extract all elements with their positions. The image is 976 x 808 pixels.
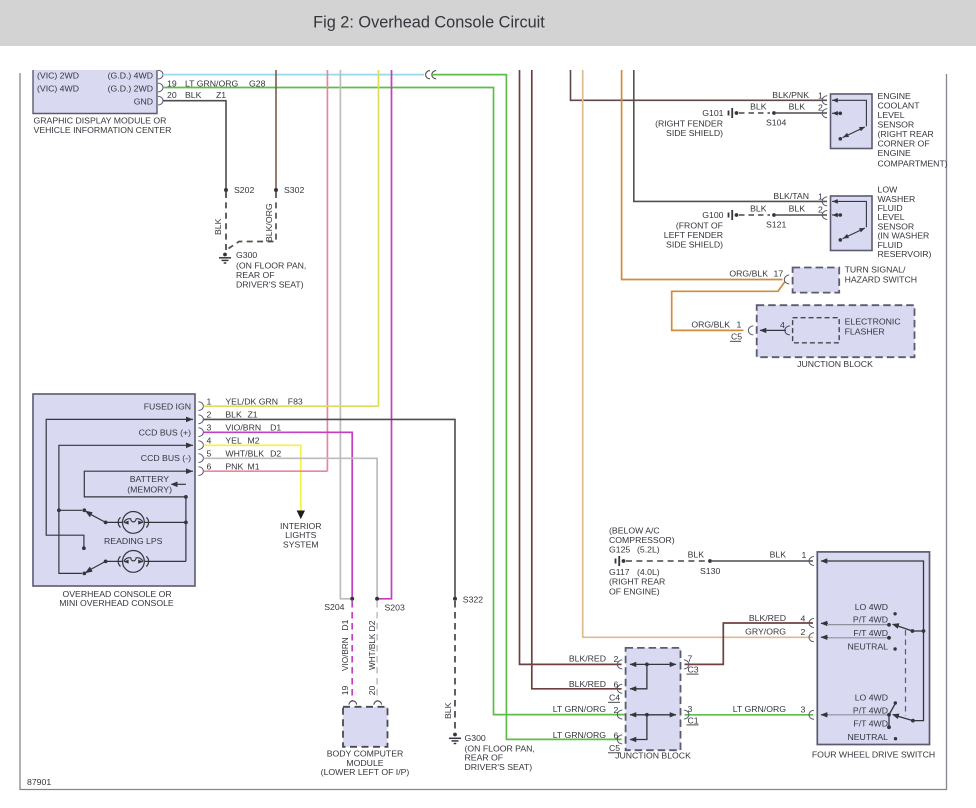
svg-text:BLK: BLK — [443, 702, 453, 719]
svg-text:YEL/DK GRN: YEL/DK GRN — [225, 396, 278, 406]
svg-text:5: 5 — [207, 449, 212, 459]
svg-text:P/T 4WD: P/T 4WD — [853, 615, 888, 625]
svg-text:S104: S104 — [766, 118, 786, 128]
svg-text:7: 7 — [688, 653, 693, 663]
internal C3-C4 link — [630, 664, 676, 688]
svg-text:Z1: Z1 — [248, 410, 258, 420]
svg-text:BLK/PNK: BLK/PNK — [772, 90, 809, 100]
wire WHT/BLK console pin 5 to splice S203 — [204, 458, 378, 599]
body computer module box — [343, 701, 388, 747]
wire LT GRN/ORG junction block C1 pin 3 to four wheel drive switch pin 3 — [685, 714, 814, 716]
svg-text:GND: GND — [134, 96, 153, 106]
internal BLK feed from pin 1 — [821, 561, 924, 721]
svg-text:1: 1 — [737, 320, 742, 330]
svg-text:(FRONT OF: (FRONT OF — [676, 220, 723, 230]
wire BLK/ORG dashed from S302 joining ground run — [229, 192, 277, 249]
svg-text:(G.D.) 2WD: (G.D.) 2WD — [108, 83, 153, 93]
turn signal / hazard switch — [784, 268, 839, 293]
svg-text:Fig 2: Overhead Console Circui: Fig 2: Overhead Console Circuit — [313, 14, 545, 32]
svg-text:HAZARD SWITCH: HAZARD SWITCH — [845, 275, 917, 285]
svg-text:DRIVER'S SEAT): DRIVER'S SEAT) — [465, 762, 533, 772]
svg-text:BLK/RED: BLK/RED — [569, 679, 606, 689]
svg-text:BLK: BLK — [789, 102, 806, 112]
wire BLK dashed G101 to splice S104 — [739, 112, 770, 114]
svg-text:JUNCTION BLOCK: JUNCTION BLOCK — [797, 359, 873, 369]
junction block (electronic flasher) — [748, 305, 914, 357]
wire GRY/ORG from top to four wheel drive switch pin 2 — [583, 70, 813, 637]
svg-text:2: 2 — [614, 654, 619, 664]
svg-text:G300: G300 — [236, 250, 257, 260]
svg-text:3: 3 — [207, 423, 212, 433]
svg-text:20: 20 — [367, 685, 377, 695]
svg-text:ELECTRONIC: ELECTRONIC — [845, 317, 901, 327]
node S203 — [375, 597, 379, 601]
svg-text:(LOWER LEFT OF I/P): (LOWER LEFT OF I/P) — [321, 767, 410, 777]
svg-text:CCD BUS (-): CCD BUS (-) — [141, 453, 191, 463]
wire BLK/RED four wheel drive switch pin 4 to junction block C3 pin 7 — [685, 623, 814, 664]
svg-text:D1: D1 — [270, 423, 281, 433]
inline connector (( — [426, 71, 437, 79]
internal wire: pin 4 lamp feed — [59, 445, 193, 573]
svg-text:BLK: BLK — [750, 102, 767, 112]
svg-text:19: 19 — [340, 685, 350, 695]
svg-text:S203: S203 — [385, 603, 405, 613]
svg-text:M2: M2 — [248, 436, 260, 446]
wire LT GRN/ORG from connector down to junction block C5 pin 6 — [431, 75, 622, 740]
wire BLK/ORG from top to splice S302 — [275, 70, 277, 190]
svg-text:BLK/RED: BLK/RED — [569, 653, 606, 663]
svg-text:C5: C5 — [731, 332, 742, 342]
svg-text:LT GRN/ORG: LT GRN/ORG — [553, 730, 606, 740]
svg-text:VIO/BRN: VIO/BRN — [341, 637, 350, 671]
svg-text:S130: S130 — [700, 566, 720, 576]
svg-text:M1: M1 — [248, 461, 260, 471]
svg-text:SYSTEM: SYSTEM — [283, 540, 319, 550]
svg-text:6: 6 — [614, 730, 619, 740]
svg-text:CORNER OF: CORNER OF — [878, 139, 930, 149]
svg-text:6: 6 — [614, 680, 619, 690]
svg-text:4: 4 — [780, 320, 785, 330]
svg-text:BLK: BLK — [688, 550, 705, 560]
svg-text:TURN SIGNAL/: TURN SIGNAL/ — [845, 265, 906, 275]
wire BLK/RED from top to junction block C4 pin 6 — [532, 70, 622, 689]
svg-text:17: 17 — [774, 269, 784, 279]
svg-text:FUSED IGN: FUSED IGN — [144, 401, 191, 411]
svg-text:ORG/BLK: ORG/BLK — [729, 269, 768, 279]
svg-text:COMPARTMENT): COMPARTMENT) — [878, 159, 948, 169]
wire ORG/BLK from turn signal pin 17 to electronic flasher pin 1 — [672, 282, 785, 331]
svg-text:BLK: BLK — [750, 204, 767, 214]
wire YEL/DK GRN console pin 1 to vertical — [204, 405, 379, 407]
four wheel drive switch — [809, 552, 930, 745]
svg-text:D1: D1 — [340, 619, 350, 630]
wire BLK from S121 to washer sensor pin 2 — [776, 214, 827, 216]
electronic flasher inner box — [793, 318, 840, 343]
svg-text:REAR OF: REAR OF — [236, 270, 275, 280]
svg-text:F83: F83 — [288, 396, 303, 406]
internal C1-C5 link — [630, 715, 676, 740]
svg-text:VEHICLE INFORMATION CENTER: VEHICLE INFORMATION CENTER — [34, 125, 172, 135]
ground G300 (lower) — [449, 733, 461, 744]
svg-text:COMPRESSOR): COMPRESSOR) — [609, 535, 675, 545]
svg-text:SIDE SHIELD): SIDE SHIELD) — [666, 128, 723, 138]
svg-text:SENSOR: SENSOR — [878, 120, 915, 130]
svg-text:4: 4 — [801, 614, 806, 624]
node S302 — [274, 188, 278, 192]
svg-text:2: 2 — [614, 705, 619, 715]
wire BLK/TAN from top to washer fluid sensor pin 1 — [634, 70, 827, 201]
svg-text:C3: C3 — [688, 665, 699, 675]
wire BLK dashed S322 to ground G300 lower — [454, 601, 456, 732]
overhead console box — [33, 394, 203, 586]
svg-text:3: 3 — [688, 704, 693, 714]
svg-text:CCD BUS (+): CCD BUS (+) — [139, 427, 191, 437]
svg-text:(VIC) 2WD: (VIC) 2WD — [37, 71, 79, 81]
wire LT BLU from GDM row1 to inline connector — [163, 74, 424, 76]
internal wire: pin 6 battery memory loop — [84, 471, 193, 561]
svg-text:S202: S202 — [234, 185, 254, 195]
svg-text:BLK/RED: BLK/RED — [749, 613, 786, 623]
node S104 — [772, 111, 776, 115]
ground G101 — [729, 108, 739, 118]
svg-text:(BELOW A/C: (BELOW A/C — [609, 525, 660, 535]
wire PNK from top to console pin 6 — [326, 70, 328, 471]
svg-text:MINI OVERHEAD CONSOLE: MINI OVERHEAD CONSOLE — [59, 598, 174, 608]
node S204 — [350, 597, 354, 601]
svg-text:BATTERY: BATTERY — [130, 474, 169, 484]
wire VIO/BRN dashed S204 to BCM pin 19 — [351, 601, 353, 701]
node S322 — [453, 597, 457, 601]
svg-text:LT GRN/ORG: LT GRN/ORG — [733, 704, 786, 714]
switch 2 blade — [104, 560, 108, 564]
wire YEL/DK GRN vertical from top to console pin 1 wire — [378, 70, 380, 406]
bottom blade — [897, 716, 913, 721]
wire BLK from GDM pin 20 (GND) to splice S202 — [163, 101, 226, 190]
node S130 — [708, 559, 712, 563]
svg-text:C4: C4 — [609, 693, 620, 703]
svg-text:(MEMORY): (MEMORY) — [127, 484, 172, 494]
svg-text:G101: G101 — [702, 108, 723, 118]
svg-text:Z1: Z1 — [216, 90, 226, 100]
wire BLK/RED from top to junction block C3 pin 2 — [520, 70, 622, 664]
wire YEL console pin 4 to interior lights arrow — [204, 445, 301, 511]
svg-text:OF ENGINE): OF ENGINE) — [609, 586, 660, 596]
svg-text:87901: 87901 — [27, 777, 51, 787]
wire BLK from S104 to coolant sensor pin 2 — [776, 112, 827, 114]
svg-text:G125: G125 — [609, 545, 630, 555]
svg-text:BLK/ORG: BLK/ORG — [264, 203, 274, 242]
svg-text:S322: S322 — [463, 594, 483, 604]
wire BLK dashed G125/G117 to splice S130 — [626, 560, 706, 562]
svg-text:1: 1 — [207, 396, 212, 406]
svg-text:(RIGHT FENDER: (RIGHT FENDER — [655, 119, 723, 129]
wire WHT/BLK dashed S203 to BCM pin 20 — [376, 601, 378, 701]
svg-text:(RIGHT REAR: (RIGHT REAR — [609, 577, 665, 587]
svg-text:S302: S302 — [284, 185, 304, 195]
svg-text:(G.D.) 4WD: (G.D.) 4WD — [108, 71, 153, 81]
svg-text:ORG/BLK: ORG/BLK — [691, 320, 730, 330]
svg-text:BLK: BLK — [213, 218, 223, 235]
wire ORG/BLK from top to turn signal switch pin 17 — [622, 70, 783, 280]
svg-text:S121: S121 — [766, 220, 786, 230]
internal wire: pin 2 BLK ground path — [46, 419, 193, 546]
svg-text:NEUTRAL: NEUTRAL — [847, 732, 888, 742]
svg-text:D2: D2 — [367, 620, 377, 631]
mechanical link dashed — [905, 630, 907, 716]
svg-text:C1: C1 — [688, 715, 699, 725]
svg-text:FLASHER: FLASHER — [845, 327, 885, 337]
svg-text:WHT/BLK: WHT/BLK — [368, 633, 377, 670]
svg-text:(RIGHT REAR: (RIGHT REAR — [878, 129, 934, 139]
wire BLK/PNK from top to engine coolant level sensor pin 1 — [571, 70, 828, 100]
svg-text:BLK/TAN: BLK/TAN — [773, 191, 809, 201]
reading lamp 1 — [106, 512, 186, 534]
svg-text:VIO/BRN: VIO/BRN — [225, 423, 261, 433]
svg-text:COOLANT: COOLANT — [878, 101, 921, 111]
svg-text:G100: G100 — [702, 210, 723, 220]
engine coolant level sensor U-ECL — [822, 94, 872, 149]
ground G300 (upper) — [219, 253, 231, 263]
svg-text:(5.2L): (5.2L) — [637, 545, 660, 555]
svg-text:BLK: BLK — [789, 204, 806, 214]
svg-text:20: 20 — [167, 90, 177, 100]
svg-text:BLK: BLK — [225, 410, 242, 420]
svg-text:NEUTRAL: NEUTRAL — [847, 641, 888, 651]
svg-text:G117: G117 — [609, 567, 630, 577]
svg-text:(ON FLOOR PAN,: (ON FLOOR PAN, — [236, 260, 306, 270]
svg-text:6: 6 — [207, 461, 212, 471]
svg-text:WHT/BLK: WHT/BLK — [225, 449, 264, 459]
wire VIO/BRN console pin 3 to splice S204 — [204, 432, 353, 599]
svg-text:BLK: BLK — [185, 90, 202, 100]
svg-text:READING LPS: READING LPS — [104, 536, 163, 546]
node S121 — [772, 213, 776, 217]
svg-text:BLK: BLK — [770, 550, 787, 560]
wire WHT from top to splice S204 — [340, 70, 350, 599]
svg-text:(VIC) 4WD: (VIC) 4WD — [37, 83, 79, 93]
top blade — [911, 629, 915, 633]
svg-text:PNK: PNK — [225, 461, 243, 471]
wire BLK console pin 2 to splice S322 — [204, 419, 455, 598]
svg-text:YEL: YEL — [225, 436, 242, 446]
svg-text:D2: D2 — [270, 449, 281, 459]
svg-text:3: 3 — [801, 704, 806, 714]
svg-text:ENGINE: ENGINE — [878, 91, 912, 101]
svg-text:4: 4 — [207, 436, 212, 446]
switch 1 blade — [104, 521, 108, 525]
svg-text:SIDE SHIELD): SIDE SHIELD) — [666, 239, 723, 249]
wire LT GRN/ORG from GDM pin 19 down to junction block C1 pin 2 — [163, 88, 626, 715]
svg-text:G300: G300 — [465, 733, 486, 743]
ground G100 — [729, 210, 739, 220]
svg-text:RESERVOIR): RESERVOIR) — [878, 249, 932, 259]
svg-text:(4.0L): (4.0L) — [637, 567, 660, 577]
wire PNK console pin 6 joins vertical — [204, 470, 328, 472]
svg-text:1: 1 — [802, 550, 807, 560]
svg-text:LEVEL: LEVEL — [878, 110, 905, 120]
svg-text:ENGINE: ENGINE — [878, 148, 912, 158]
wire BLK dashed G100 to splice S121 — [739, 214, 770, 216]
svg-text:LO 4WD: LO 4WD — [855, 602, 888, 612]
svg-text:JUNCTION BLOCK: JUNCTION BLOCK — [615, 751, 691, 761]
svg-text:LO 4WD: LO 4WD — [855, 692, 888, 702]
junction block (C3/C4/C1/C5) — [617, 648, 689, 750]
svg-text:P/T 4WD: P/T 4WD — [853, 705, 888, 715]
svg-text:FOUR WHEEL DRIVE SWITCH: FOUR WHEEL DRIVE SWITCH — [812, 750, 935, 760]
svg-text:S204: S204 — [324, 602, 344, 612]
svg-text:2: 2 — [801, 627, 806, 637]
node S202 — [224, 188, 228, 192]
wire BLK from S130 to four wheel drive switch pin 1 — [712, 560, 813, 562]
svg-text:LT GRN/ORG: LT GRN/ORG — [553, 704, 606, 714]
svg-text:F/T 4WD: F/T 4WD — [853, 718, 888, 728]
wire VIO from top to splice S203 — [379, 70, 392, 599]
svg-text:GRY/ORG: GRY/ORG — [745, 627, 786, 637]
low washer fluid level sensor — [822, 196, 872, 251]
svg-text:DRIVER'S SEAT): DRIVER'S SEAT) — [236, 279, 304, 289]
svg-text:F/T 4WD: F/T 4WD — [853, 628, 888, 638]
svg-text:LEFT FENDER: LEFT FENDER — [664, 230, 723, 240]
title bar — [0, 0, 976, 46]
svg-text:2: 2 — [207, 410, 212, 420]
reading lamp 2 — [106, 551, 186, 573]
wire BLK dashed from S202 to ground G300 — [225, 192, 227, 252]
graphic display module box — [33, 70, 171, 135]
